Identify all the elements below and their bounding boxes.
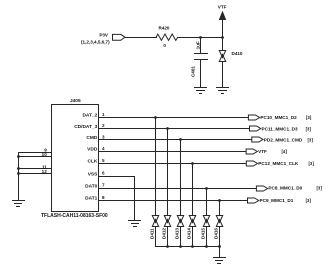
wire D415 to bus xyxy=(206,226,208,247)
port P3V xyxy=(113,34,126,40)
svg-text:6: 6 xyxy=(102,171,105,176)
net tag PC12_MMC1_CLK xyxy=(246,161,257,166)
wire D415 column xyxy=(206,188,208,216)
capacitor C401 xyxy=(194,37,208,88)
svg-text:PC10_MMC1_D2: PC10_MMC1_D2 xyxy=(260,115,297,120)
wire D412 column xyxy=(167,128,169,216)
svg-text:P3V: P3V xyxy=(99,32,109,37)
wire pin 8 DAT1 xyxy=(99,200,248,202)
net tag PC9_MMC1_D1 xyxy=(248,198,259,203)
svg-text:PC11_MMC1_D3: PC11_MMC1_D3 xyxy=(262,126,299,131)
svg-text:[3]: [3] xyxy=(306,126,312,131)
svg-text:CMD: CMD xyxy=(86,135,97,141)
svg-text:CLK: CLK xyxy=(87,159,97,165)
svg-text:PC12_MMC1_CLK: PC12_MMC1_CLK xyxy=(258,161,299,166)
wire D412 to bus xyxy=(167,226,169,247)
junction bus xyxy=(179,245,182,248)
svg-text:(1,2,3,4,5,6,7): (1,2,3,4,5,6,7) xyxy=(81,40,110,45)
net tag PC11_MMC1_D3 xyxy=(250,126,261,131)
wire P3V to R420 xyxy=(125,37,157,39)
svg-text:PD2_MMC1_CMD: PD2_MMC1_CMD xyxy=(264,138,303,143)
svg-text:D411: D411 xyxy=(149,228,154,239)
svg-text:1: 1 xyxy=(102,112,105,117)
svg-text:3: 3 xyxy=(102,135,105,140)
wire pin 4 VDD xyxy=(99,151,247,153)
junction bus xyxy=(205,245,208,248)
junction VTF node xyxy=(221,36,224,39)
wire bus to ground xyxy=(219,246,221,258)
junction D411 to pin 1 xyxy=(154,116,157,119)
wire D410 to ground xyxy=(222,61,224,88)
junction bus xyxy=(191,245,194,248)
wire pin 12 xyxy=(18,173,52,175)
svg-text:[3]: [3] xyxy=(308,138,314,143)
connector J405 xyxy=(52,105,99,212)
wire pin 3 CMD xyxy=(99,139,252,141)
svg-text:VSS: VSS xyxy=(88,171,98,177)
wire D414 column xyxy=(192,163,194,216)
cap top lead xyxy=(200,37,202,54)
svg-text:[3]: [3] xyxy=(306,115,312,120)
diode D413 xyxy=(177,216,184,227)
wire diode ground bus xyxy=(155,246,220,248)
net tag VTF xyxy=(246,149,257,154)
svg-text:VTF: VTF xyxy=(258,149,267,154)
ground left pins xyxy=(12,201,25,207)
wire pin 11 xyxy=(18,168,52,170)
svg-text:PC9_MMC1_D1: PC9_MMC1_D1 xyxy=(260,198,294,203)
svg-text:TFLASH-CAH11-08163-SF00: TFLASH-CAH11-08163-SF00 xyxy=(41,213,108,219)
svg-text:0: 0 xyxy=(163,43,166,48)
svg-text:10: 10 xyxy=(42,152,48,157)
wire R420 to VTF node xyxy=(177,37,223,39)
wire D411 column xyxy=(155,117,157,216)
svg-text:D413: D413 xyxy=(174,228,179,239)
junction left bus xyxy=(17,155,20,158)
junction D415 to pin 7 xyxy=(205,187,208,190)
svg-text:[4]: [4] xyxy=(282,149,288,154)
svg-text:CD/DAT_3: CD/DAT_3 xyxy=(74,124,97,130)
junction bus xyxy=(218,245,221,248)
svg-text:[3]: [3] xyxy=(317,186,323,191)
wire D414 to bus xyxy=(192,226,194,247)
diode D414 xyxy=(189,216,196,227)
wire pin 7 DAT0 xyxy=(99,188,257,190)
junction C401 node xyxy=(199,36,202,39)
junction D416 to pin 8 xyxy=(218,199,221,202)
svg-text:DAT_2: DAT_2 xyxy=(82,113,97,119)
svg-text:D416: D416 xyxy=(213,228,218,239)
net tag PD2_MMC1_CMD xyxy=(252,137,263,142)
junction left bus xyxy=(17,172,20,175)
svg-text:[3]: [3] xyxy=(309,161,315,166)
ground diode bus xyxy=(213,258,226,264)
diode D415 xyxy=(203,216,210,227)
svg-text:4: 4 xyxy=(102,146,105,151)
junction bus xyxy=(166,245,169,248)
junction D413 to pin 3 xyxy=(179,138,182,141)
svg-text:2: 2 xyxy=(102,123,105,128)
svg-text:5: 5 xyxy=(102,158,105,163)
wire to D410 xyxy=(222,37,224,51)
svg-text:C401: C401 xyxy=(191,66,196,77)
svg-text:DAT0: DAT0 xyxy=(85,183,98,189)
ground VSS xyxy=(128,221,141,227)
svg-text:7: 7 xyxy=(102,183,105,188)
svg-text:D414: D414 xyxy=(186,228,191,239)
vss v xyxy=(134,176,136,221)
wire left pins to ground xyxy=(18,152,20,201)
net tag PC10_MMC1_D2 xyxy=(248,115,259,120)
svg-text:DAT1: DAT1 xyxy=(85,196,98,202)
wire D413 to bus xyxy=(180,226,182,247)
resistor R420 xyxy=(156,34,178,40)
wire pin 1 DAT_2 xyxy=(99,117,249,119)
wire VSS pin 6 xyxy=(99,176,135,221)
wire pin 10 xyxy=(18,156,52,158)
ground under D410 xyxy=(216,88,229,94)
wire D416 column xyxy=(219,200,221,216)
svg-text:J405: J405 xyxy=(70,98,81,104)
svg-text:VTF: VTF xyxy=(218,4,227,9)
svg-text:8: 8 xyxy=(102,195,105,200)
svg-text:R420: R420 xyxy=(159,25,170,30)
diode D416 xyxy=(216,216,223,227)
diode D411 xyxy=(152,216,159,227)
wire pin 2 CD/DAT_3 xyxy=(99,128,250,130)
svg-text:12: 12 xyxy=(42,169,48,174)
net tag PC8_MMC1_D0 xyxy=(256,186,267,191)
svg-text:[3]: [3] xyxy=(306,198,312,203)
wire pin 9 xyxy=(18,152,52,154)
cap bottom lead xyxy=(200,59,202,88)
svg-text:D415: D415 xyxy=(200,228,205,239)
diode D412 xyxy=(164,216,171,227)
ground under C401 xyxy=(194,88,207,94)
vss h xyxy=(99,176,135,178)
junction D414 to pin 5 xyxy=(191,162,194,165)
wire pin 5 CLK xyxy=(99,163,247,165)
svg-text:1uF: 1uF xyxy=(196,41,201,49)
power VTF arrow xyxy=(220,12,226,38)
junction D412 to pin 2 xyxy=(166,127,169,130)
svg-text:D412: D412 xyxy=(161,228,166,239)
svg-text:VDD: VDD xyxy=(87,147,98,153)
svg-text:D410: D410 xyxy=(232,51,243,56)
wire D411 to bus xyxy=(155,226,157,247)
wire D416 to bus xyxy=(219,226,221,247)
svg-text:PC8_MMC1_D0: PC8_MMC1_D0 xyxy=(268,186,302,191)
diode D410 xyxy=(219,51,226,62)
wire D413 column xyxy=(180,139,182,216)
junction left bus xyxy=(17,167,20,170)
vtf lead xyxy=(222,19,224,38)
